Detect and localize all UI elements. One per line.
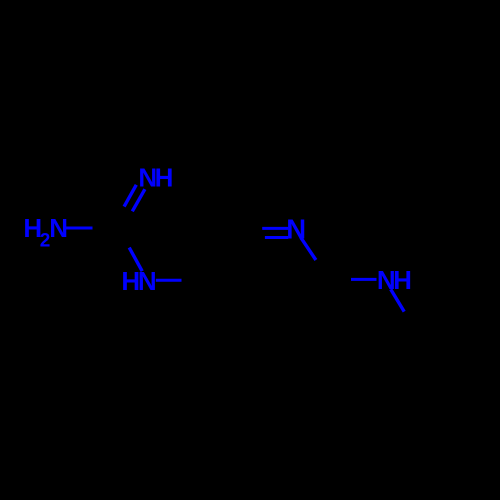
bond C-NH(guanidine to ring NH) diagonal [129, 248, 142, 272]
svg-text:H: H [155, 162, 174, 192]
bond NH-CH2 diagonal [391, 289, 405, 311]
label HN (bridging NH) [121, 266, 156, 296]
label H2N (amine) [23, 213, 68, 252]
label NH (imine nitrogen of guanidine) [138, 162, 173, 192]
bond pyridine N-C6 diagonal [301, 238, 316, 260]
bond H2N-C [65, 227, 92, 230]
svg-text:N: N [49, 213, 68, 243]
bond ring C=N double bond outer line [262, 227, 288, 230]
bond C=NH double bond line 1 [124, 185, 136, 207]
bond ring C=N double bond inner line [265, 236, 288, 239]
label NH (ethylamino) [377, 265, 412, 295]
svg-text:H: H [393, 265, 412, 295]
bond HN-ring carbon [156, 279, 182, 282]
svg-text:N: N [138, 266, 157, 296]
label N (pyridine nitrogen) [286, 213, 306, 244]
bond ring C6-NH(ethylamino) [351, 278, 377, 281]
bond C=NH double bond line 2 [132, 189, 145, 211]
